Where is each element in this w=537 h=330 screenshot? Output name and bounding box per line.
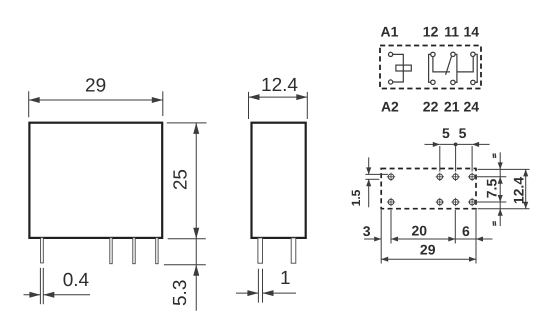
dimension 29 (front width) dimension line with arrows <box>29 99 163 101</box>
wire 21 arm seat (right then up to 14) <box>457 57 473 72</box>
contact terminal 22 circle <box>431 80 435 84</box>
equal-margin and 7.5 continuous dimension line <box>499 152 501 226</box>
svg-text:24: 24 <box>464 99 480 115</box>
equal-margin mark top <box>492 153 494 158</box>
svg-text:0.4: 0.4 <box>63 270 90 291</box>
contact terminal 12 circle <box>431 52 435 56</box>
svg-text:25: 25 <box>170 169 191 190</box>
svg-text:5: 5 <box>442 125 450 141</box>
front view pin A1 (0.4 mm) <box>41 238 44 263</box>
coil terminal A2 circle <box>389 80 393 84</box>
dimension 6 leader with outside arrow <box>455 238 476 240</box>
svg-text:1: 1 <box>280 268 291 289</box>
wire coil to A2 <box>393 65 404 82</box>
svg-text:12: 12 <box>423 24 439 40</box>
dimension 0.4 dimension line with outside arrows <box>24 294 41 296</box>
svg-text:12.4: 12.4 <box>261 75 298 96</box>
svg-text:1.5: 1.5 <box>349 189 363 206</box>
side view pin left (1 mm) <box>258 238 263 263</box>
dimension 3 leader with outside arrow <box>364 238 381 240</box>
hole for pin 21 <box>451 198 459 206</box>
PCB bottom extension lines <box>380 210 382 264</box>
hole for pin A2 <box>387 198 395 206</box>
front view contact pin 11/21 <box>133 238 135 264</box>
dimension 1 dimension line with outside arrows <box>236 292 258 294</box>
wire 14-24 right fixed contact bracket <box>475 54 477 82</box>
dimension 1 (pin width) extension lines <box>257 269 259 303</box>
wire 11-21 centre bracket <box>455 54 457 82</box>
wire 12-22 left fixed contact bracket <box>429 54 431 82</box>
wire 12 movable seat (down then right) <box>433 57 450 72</box>
dimension 5.3 extension line at pin end <box>164 264 206 266</box>
side view relay body (12.4 mm wide) <box>252 123 306 238</box>
front view relay body (29 x 25 mm) <box>29 123 162 238</box>
svg-text:14: 14 <box>464 24 480 40</box>
svg-text:6: 6 <box>462 223 470 239</box>
dimension 29 (front width) extension lines <box>28 91 30 117</box>
hole for pin 22 <box>436 198 444 206</box>
contact arm from 11 (diagonal) <box>446 56 452 75</box>
svg-text:5: 5 <box>459 125 467 141</box>
PCB plan dashed relay outline (29 x 12.4 mm) <box>381 169 476 209</box>
contact terminal 11 circle <box>451 52 455 56</box>
svg-text:11: 11 <box>444 24 459 40</box>
svg-text:A1: A1 <box>381 24 399 40</box>
dimension 5-5 dimension line with outside arrows and centre dot <box>425 143 440 145</box>
dimension 12.4 (PCB height) dimension line <box>525 169 527 208</box>
hole for pin 14 <box>468 173 476 181</box>
svg-text:22: 22 <box>423 99 439 115</box>
equal-margin top arrow <box>498 162 503 169</box>
front view contact pin 12/22 <box>110 238 112 264</box>
svg-text:12.4: 12.4 <box>511 177 527 204</box>
svg-text:3: 3 <box>363 223 371 239</box>
dimension 25 and 5.3 vertical dimension line <box>195 123 197 311</box>
svg-text:21: 21 <box>444 99 460 115</box>
side view pin right <box>291 238 296 263</box>
dimension 0.4 (pin thickness) extension lines <box>39 268 41 304</box>
equal-margin mark bottom <box>492 221 494 226</box>
schematic dashed enclosure box <box>380 46 481 89</box>
dimension 25 (front height) extension line top <box>167 122 207 124</box>
hole for pin A1 <box>387 173 395 181</box>
svg-text:29: 29 <box>420 241 436 257</box>
svg-text:A2: A2 <box>381 99 399 115</box>
dimension 7.5 arrows <box>498 177 503 184</box>
contact terminal 24 circle <box>471 80 475 84</box>
PCB right extension lines <box>478 168 530 170</box>
dimension 25 / 5.3 shared extension line at body bottom <box>168 238 206 240</box>
coil K1 winding rectangle <box>396 65 411 71</box>
hole for pin 24 <box>468 198 476 206</box>
dimension 1.5 leader arrows <box>368 157 370 174</box>
wire A1 to coil <box>393 54 404 65</box>
contact terminal 14 circle <box>471 52 475 56</box>
dimension 1.5 hole diameter tangent lines <box>365 173 388 175</box>
equal-margin bottom arrow <box>498 209 503 216</box>
dimension 12.4 dimension line with arrows <box>249 96 308 98</box>
svg-text:7.5: 7.5 <box>483 179 499 199</box>
contact terminal 21 circle <box>451 80 455 84</box>
dimension 20 dimension line with arrows <box>391 238 455 240</box>
svg-text:5.3: 5.3 <box>170 280 191 306</box>
dimension 29 (PCB width) dimension line <box>381 258 476 260</box>
hole for pin 12 <box>436 173 444 181</box>
svg-text:20: 20 <box>412 223 428 239</box>
svg-text:29: 29 <box>85 76 106 97</box>
dimension 5-5 extension lines above holes <box>439 146 441 172</box>
coil terminal A1 circle <box>389 52 393 56</box>
front view contact pin 14/24 <box>156 238 158 264</box>
dimension 12.4 (side width) extension lines <box>248 92 250 119</box>
hole for pin 11 <box>451 173 459 181</box>
